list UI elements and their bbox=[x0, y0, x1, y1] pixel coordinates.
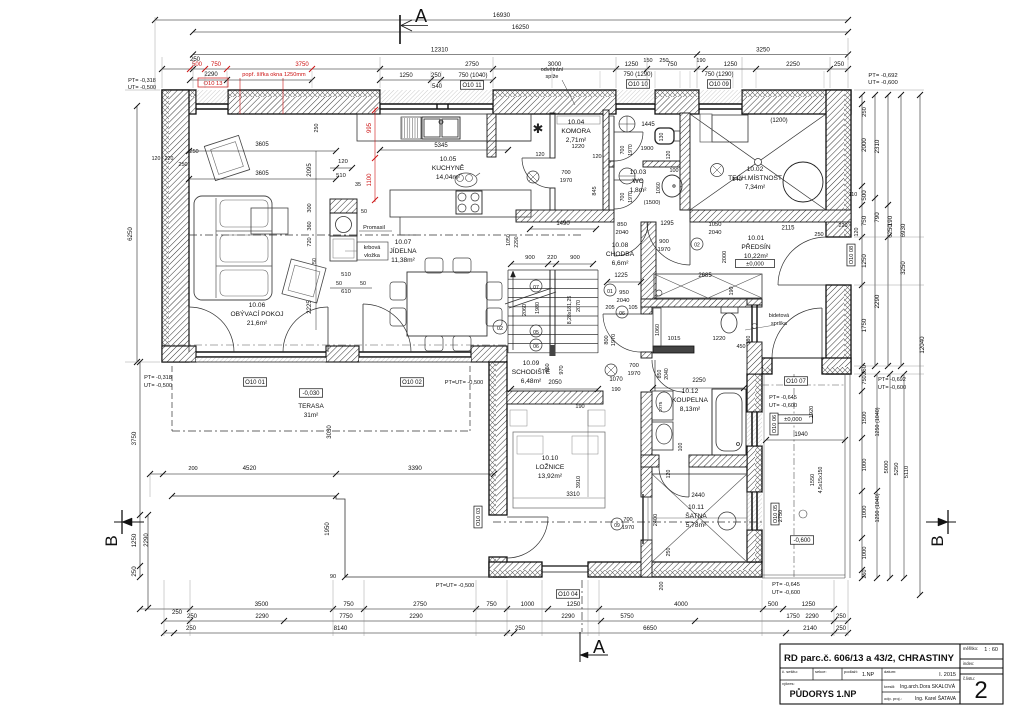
svg-text:RD parc.č. 606/13 a 43/2, CHRA: RD parc.č. 606/13 a 43/2, CHRASTINY bbox=[784, 653, 955, 664]
svg-text:č.listu:: č.listu: bbox=[963, 676, 975, 681]
svg-text:Ing.arch.Dora SKALOVÁ: Ing.arch.Dora SKALOVÁ bbox=[900, 683, 956, 690]
svg-text:2: 2 bbox=[974, 677, 987, 704]
svg-text:I. 2015: I. 2015 bbox=[939, 672, 956, 678]
svg-text:výkres:: výkres: bbox=[782, 681, 795, 686]
svg-text:index:: index: bbox=[963, 661, 974, 666]
svg-text:Ing. Karel ŠATAVA: Ing. Karel ŠATAVA bbox=[915, 695, 957, 702]
svg-text:datum:: datum: bbox=[884, 669, 896, 674]
svg-text:č. sešitu:: č. sešitu: bbox=[782, 669, 798, 674]
svg-text:1 : 60: 1 : 60 bbox=[984, 647, 998, 653]
svg-text:sekce:: sekce: bbox=[815, 669, 827, 674]
svg-text:podlaží:: podlaží: bbox=[844, 669, 858, 674]
svg-text:kreslil:: kreslil: bbox=[884, 684, 895, 689]
svg-text:odp. proj.:: odp. proj.: bbox=[884, 696, 902, 701]
svg-text:měřítko:: měřítko: bbox=[963, 646, 978, 651]
svg-text:1.NP: 1.NP bbox=[862, 672, 875, 678]
svg-text:PŮDORYS 1.NP: PŮDORYS 1.NP bbox=[790, 688, 857, 699]
